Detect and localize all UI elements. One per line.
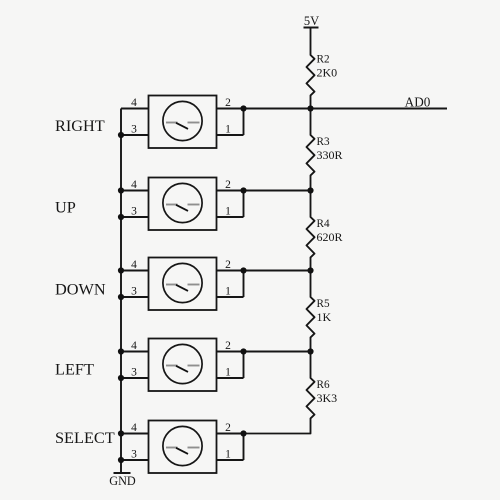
svg-text:3K3: 3K3	[317, 391, 338, 405]
svg-text:DOWN: DOWN	[55, 280, 106, 299]
svg-text:1: 1	[225, 286, 231, 298]
svg-text:620R: 620R	[317, 230, 343, 244]
svg-text:2: 2	[225, 259, 231, 271]
svg-text:GND: GND	[109, 474, 136, 488]
svg-text:4: 4	[131, 97, 137, 109]
svg-text:UP: UP	[55, 197, 76, 216]
svg-text:LEFT: LEFT	[55, 360, 94, 379]
svg-text:SELECT: SELECT	[55, 428, 115, 447]
svg-text:2: 2	[225, 97, 231, 109]
svg-text:R5: R5	[317, 298, 330, 310]
svg-text:4: 4	[131, 340, 137, 352]
svg-text:1: 1	[225, 206, 231, 218]
svg-text:330R: 330R	[317, 148, 343, 162]
svg-text:AD0: AD0	[405, 94, 431, 109]
svg-text:4: 4	[131, 422, 137, 434]
svg-text:R6: R6	[317, 379, 330, 391]
svg-text:1: 1	[225, 449, 231, 461]
svg-text:R2: R2	[317, 54, 330, 66]
svg-text:3: 3	[131, 367, 137, 379]
svg-text:3: 3	[131, 449, 137, 461]
svg-text:4: 4	[131, 179, 137, 191]
svg-text:2K0: 2K0	[317, 66, 338, 80]
svg-text:1K: 1K	[317, 310, 332, 324]
svg-text:2: 2	[225, 340, 231, 352]
svg-text:RIGHT: RIGHT	[55, 116, 105, 135]
svg-text:4: 4	[131, 259, 137, 271]
svg-text:3: 3	[131, 286, 137, 298]
svg-text:R4: R4	[317, 218, 330, 230]
svg-text:1: 1	[225, 124, 231, 136]
svg-text:3: 3	[131, 124, 137, 136]
svg-text:R3: R3	[317, 136, 330, 148]
svg-text:3: 3	[131, 206, 137, 218]
svg-text:2: 2	[225, 179, 231, 191]
svg-text:5V: 5V	[304, 14, 319, 28]
svg-text:1: 1	[225, 367, 231, 379]
svg-text:2: 2	[225, 422, 231, 434]
